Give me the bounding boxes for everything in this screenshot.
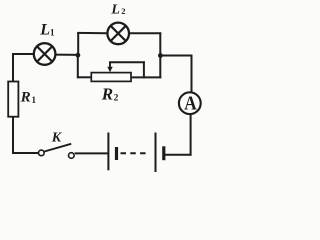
wire ammeter top vertical [191, 55, 193, 92]
svg-text:R: R [20, 89, 31, 105]
wire bottom-right horizontal [165, 154, 192, 156]
wire to R2 left [77, 76, 92, 78]
wire left vertical lower [12, 116, 14, 154]
wire L1 right to left junction [56, 54, 79, 56]
svg-text:2: 2 [114, 93, 119, 103]
battery cell1 long plate [107, 133, 109, 171]
wire R2 right [131, 76, 162, 78]
svg-text:L: L [110, 2, 120, 17]
wire junction to ammeter corner [160, 55, 193, 57]
wire wiper top horizontal [109, 61, 145, 63]
battery cell1 short plate [115, 147, 118, 160]
svg-text:1: 1 [50, 28, 55, 38]
battery cell2 long plate [155, 133, 157, 173]
rheostat R2 [91, 73, 131, 82]
wire switch to battery [75, 152, 108, 154]
wire left junction down vertical [77, 55, 79, 79]
svg-text:A: A [184, 93, 197, 115]
resistor R1 [8, 82, 18, 117]
wire L2 right to right vertical [129, 32, 161, 34]
switch K lever [44, 144, 71, 152]
battery dashed link [121, 152, 148, 154]
wire top-left horizontal to L1 [12, 53, 34, 55]
battery cell2 short plate [162, 146, 165, 160]
wire left junction up vertical [77, 32, 79, 56]
ammeter A [179, 92, 201, 114]
wire left vertical upper [12, 53, 14, 82]
svg-text:1: 1 [32, 95, 37, 105]
svg-text:L: L [39, 21, 50, 38]
switch K contact right [69, 153, 75, 159]
wire bottom-left horizontal to switch [12, 152, 38, 154]
node junction right [158, 53, 163, 58]
wire right vertical L2-to-R2 [159, 32, 161, 78]
svg-text:R: R [101, 85, 113, 104]
lamp L2 [107, 23, 129, 45]
svg-text:K: K [51, 131, 63, 146]
wire wiper right vertical [143, 61, 145, 78]
svg-text:2: 2 [121, 6, 125, 16]
rheostat wiper arrow [107, 62, 112, 73]
switch K contact left [39, 150, 45, 156]
lamp L1 [34, 43, 56, 65]
node junction left [76, 53, 81, 58]
wire to L2 left [77, 32, 107, 34]
wire ammeter bottom vertical [190, 115, 192, 156]
